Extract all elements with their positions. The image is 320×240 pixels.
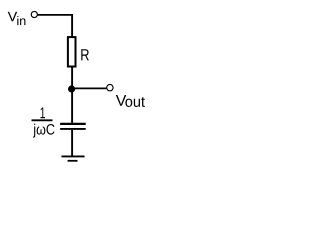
terminal Vin	[31, 11, 37, 17]
node Vout label	[116, 95, 145, 107]
wire resistor to node	[71, 67, 73, 89]
wire capacitor to ground	[71, 130, 73, 156]
ground	[62, 156, 85, 160]
wire node to capacitor	[71, 89, 73, 123]
wire node to Vout	[72, 87, 106, 89]
capacitor C1 top plate	[60, 123, 86, 125]
wire top horizontal	[37, 14, 73, 16]
node Vin label	[8, 12, 26, 25]
terminal Vout	[107, 84, 113, 90]
capacitor C1 value label 1 over jwC	[32, 108, 55, 138]
resistor R1 value label R	[81, 49, 89, 60]
capacitor C1 bottom plate	[60, 128, 86, 130]
resistor R1 body	[68, 37, 76, 66]
wire top vertical	[71, 14, 73, 38]
node junction dot	[68, 85, 75, 92]
